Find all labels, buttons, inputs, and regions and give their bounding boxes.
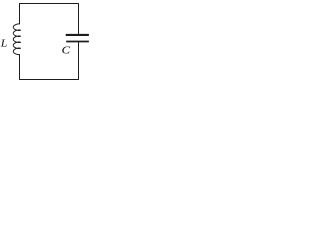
svg-text:L: L	[0, 37, 7, 49]
svg-text:C: C	[62, 44, 71, 56]
